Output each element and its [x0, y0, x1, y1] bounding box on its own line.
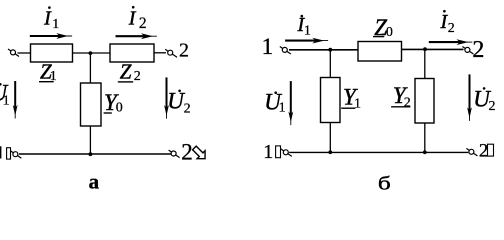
wire: Y1 down to bottom wire — [329, 123, 331, 153]
bottom wire (left circuit) — [19, 153, 171, 155]
svg-text:2: 2 — [472, 37, 484, 63]
svg-text:2: 2 — [448, 21, 455, 36]
current arrow I1 (right circuit) — [285, 38, 328, 44]
terminal 1 (left circuit, top-left) — [8, 49, 19, 57]
svg-text:1: 1 — [50, 69, 57, 84]
junction node (right circuit, bottom-right) — [423, 150, 427, 154]
label Z2 underlined — [118, 60, 141, 84]
wire: Y2 down to bottom wire — [424, 123, 426, 152]
svg-text:U: U — [167, 89, 185, 114]
svg-text:1: 1 — [262, 34, 274, 59]
svg-text:1: 1 — [3, 93, 10, 108]
current arrow I2 (left circuit) — [116, 33, 157, 39]
admittance Y2 box — [415, 79, 434, 124]
label U1 dotted (right circuit) — [264, 90, 285, 116]
wire: top node down to Y2 — [424, 49, 426, 78]
wire: Z2 to top-right terminal — [154, 52, 166, 54]
wire: Z1 to Z2 — [73, 52, 111, 54]
junction node (right circuit, top-right) — [423, 47, 427, 51]
impedance Z2 box — [110, 44, 154, 62]
voltage arrow U2 (right circuit) — [467, 74, 472, 121]
label Y2 underlined — [391, 83, 411, 110]
svg-text:I: I — [43, 8, 52, 30]
svg-text:0: 0 — [116, 100, 123, 115]
caption b (right circuit) — [378, 173, 391, 194]
svg-text:1: 1 — [354, 96, 361, 111]
svg-text:2: 2 — [139, 15, 147, 32]
voltage arrow U1 (right circuit) — [288, 81, 293, 125]
svg-text:0: 0 — [386, 25, 393, 40]
label U1 dotted (left circuit, clipped at edge) — [0, 80, 10, 108]
junction node (right circuit, top-left) — [328, 48, 332, 52]
svg-text:1: 1 — [263, 141, 273, 163]
label Y0 underlined — [104, 90, 123, 115]
label I2 dotted (right circuit) — [440, 10, 455, 36]
svg-text:2: 2 — [179, 40, 189, 62]
wire: Y0 down to bottom node — [89, 126, 91, 154]
missing-glyph box after 2 (right circuit) — [488, 144, 494, 156]
svg-text:1: 1 — [52, 17, 59, 32]
svg-text:Z: Z — [120, 60, 132, 84]
svg-text:I: I — [128, 8, 137, 30]
terminal 2-prime (right circuit, bottom-right) — [466, 148, 477, 156]
label U2 dotted (right circuit) — [473, 86, 495, 114]
junction node (left circuit, bottom) — [89, 152, 93, 156]
svg-text:1: 1 — [304, 24, 311, 39]
label I1 dotted (right circuit) — [297, 14, 311, 38]
missing-glyph box after 1 (right circuit) — [276, 146, 281, 158]
current arrow I2 (right circuit) — [429, 39, 473, 45]
label Y1 underlined — [341, 84, 361, 111]
label U2 dotted (left circuit) — [167, 89, 190, 117]
terminal 1 (right circuit, top-left) — [280, 47, 291, 55]
svg-text:2: 2 — [184, 101, 191, 116]
voltage arrow U2 (left circuit) — [164, 77, 169, 118]
admittance Y0 box — [81, 83, 102, 126]
wire: Z0 to top-right terminal — [402, 48, 464, 50]
label 1 (left circuit bottom-left, clipped to a stem sliver) — [0, 146, 1, 158]
svg-text:2: 2 — [404, 95, 411, 110]
impedance Z0 box — [358, 42, 402, 62]
svg-text:2: 2 — [134, 69, 141, 84]
voltage arrow U1 (left circuit) — [13, 81, 18, 119]
wire: top node down to Y0 — [89, 53, 91, 83]
terminal 2-prime (left circuit, bottom-right) — [169, 150, 180, 158]
junction node (left circuit, top) — [89, 51, 93, 55]
terminal 1-prime (right circuit, bottom-left) — [281, 149, 292, 157]
label Z1 underlined — [39, 59, 57, 84]
svg-text:2: 2 — [181, 140, 193, 165]
svg-text:б: б — [378, 173, 391, 194]
missing-glyph box after 1 (left circuit) — [7, 148, 11, 159]
current arrow I1 (left circuit) — [30, 33, 72, 39]
wire: top node down to Y1 — [329, 50, 331, 78]
impedance Z1 box — [31, 44, 73, 62]
svg-text:2: 2 — [489, 99, 496, 114]
wire: top-left terminal to Z1 — [18, 52, 31, 54]
svg-text:а: а — [89, 169, 100, 193]
label I1 dotted (left circuit) — [43, 6, 59, 32]
bottom wire (right circuit) — [289, 151, 468, 153]
hollow south-east arrow glyph (left circuit bottom-right) — [190, 144, 209, 163]
svg-text:1: 1 — [279, 101, 286, 116]
terminal 1-prime (left circuit, bottom-left) — [10, 151, 21, 159]
terminal 2 (left circuit, top-right) — [165, 49, 177, 57]
admittance Y1 box — [321, 78, 341, 123]
label Z0 underlined — [373, 15, 393, 40]
terminal 2 (right circuit, top-right) — [462, 47, 473, 55]
junction node (right circuit, bottom-left) — [328, 150, 332, 154]
wire: top-left terminal to Z0 — [289, 49, 360, 51]
label I2 dotted (left circuit) — [128, 6, 147, 32]
